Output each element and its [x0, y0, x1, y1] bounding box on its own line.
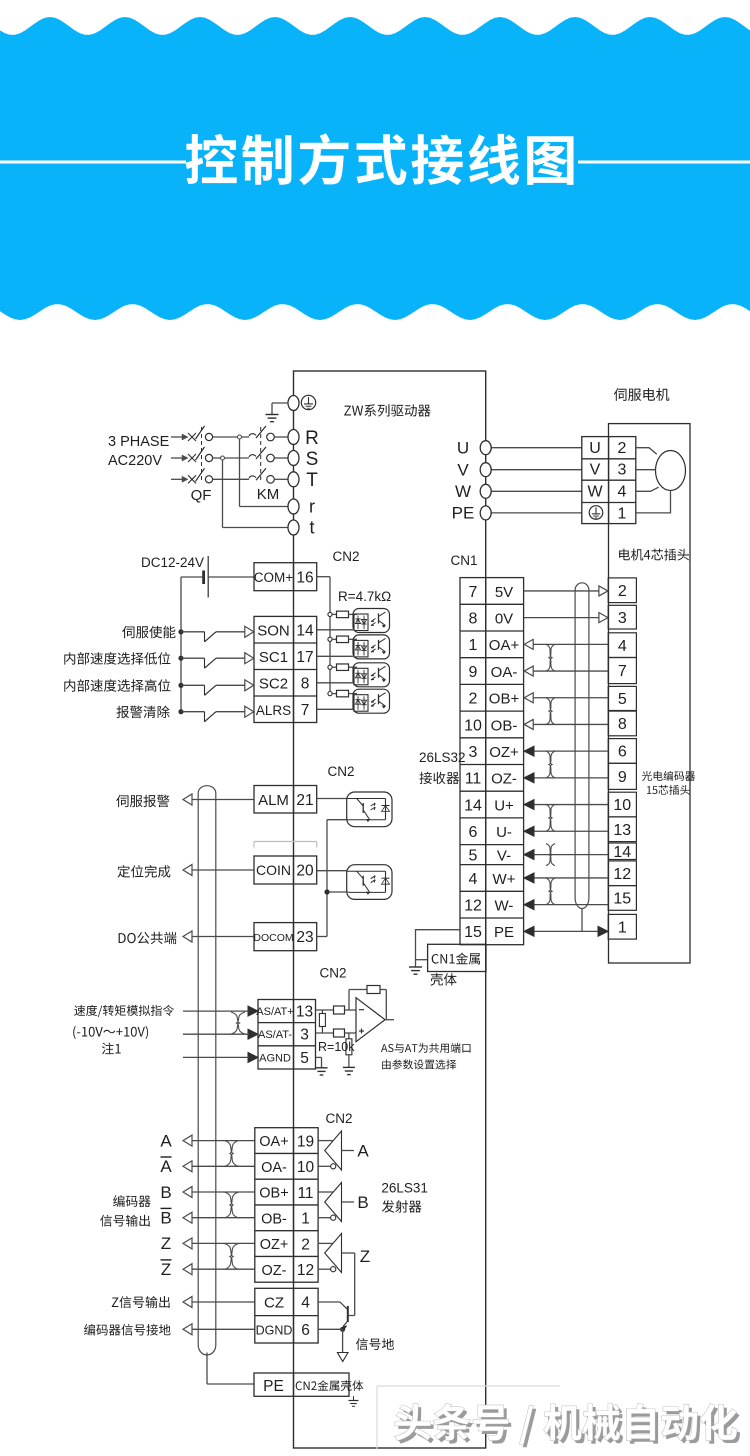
- opto node 4: [328, 692, 332, 696]
- wire W to motor table: [491, 490, 582, 492]
- svg-text:SC1: SC1: [259, 649, 288, 666]
- wire phase S source lead: [171, 457, 183, 459]
- label 伺服使能: [122, 626, 175, 639]
- encoder connector pin 2: [608, 578, 636, 603]
- svg-text:7: 7: [618, 663, 627, 680]
- svg-text:CN1: CN1: [450, 553, 477, 568]
- label (-10V～+10V): [73, 1026, 148, 1039]
- svg-text:3 PHASE: 3 PHASE: [108, 434, 170, 450]
- label CN1金属: [432, 953, 480, 965]
- svg-text:OZ-: OZ-: [262, 1263, 287, 1279]
- svg-text:7: 7: [301, 702, 310, 719]
- twist OA pair: [546, 644, 555, 671]
- junction dot SON: [178, 629, 183, 634]
- label 内部速度选择低位: [64, 652, 170, 665]
- DOCOM box: [254, 923, 317, 951]
- motor table box: [582, 437, 636, 524]
- encoder connector pin 1: [608, 914, 636, 939]
- label 伺服报警: [116, 795, 169, 808]
- arrow encoder out: [183, 1297, 192, 1308]
- label 15芯插头: [647, 785, 690, 795]
- wire DGND: [318, 1328, 343, 1330]
- svg-text:OB-: OB-: [491, 717, 518, 734]
- label 编码器: [113, 1195, 151, 1207]
- svg-text:OA+: OA+: [259, 1134, 288, 1150]
- watermark 头条号 / 机械自动化: [395, 1404, 737, 1444]
- opto node 3: [328, 665, 332, 669]
- breaker QF pole T: [196, 468, 205, 481]
- resistor R4.7k #2: [332, 638, 336, 640]
- svg-text:Z: Z: [161, 1260, 171, 1279]
- svg-text:W: W: [455, 482, 471, 501]
- svg-text:5V: 5V: [495, 584, 513, 601]
- svg-text:ALRS: ALRS: [256, 703, 291, 718]
- label 定位完成: [118, 865, 171, 878]
- terminal U: [480, 441, 491, 455]
- svg-text:OA-: OA-: [261, 1160, 287, 1176]
- wire battery+ to COM+: [208, 576, 254, 578]
- title 控制方式接线图: [186, 133, 574, 185]
- ALM box: [254, 786, 317, 814]
- wire motor pin4: [636, 487, 659, 491]
- svg-text:W: W: [587, 484, 603, 501]
- switch SON: [181, 631, 205, 633]
- svg-text:8: 8: [618, 716, 627, 733]
- wire opto1 return: [327, 819, 349, 821]
- wire opto2 return: [327, 891, 349, 893]
- label 壳体: [430, 973, 456, 986]
- wire r: [240, 506, 289, 508]
- svg-text:OA-: OA-: [491, 664, 518, 681]
- encoder connector pin 14: [608, 843, 636, 860]
- svg-text:11: 11: [297, 1185, 313, 1202]
- svg-text:COM+: COM+: [254, 570, 293, 585]
- resistor input +: [334, 1029, 345, 1037]
- svg-text:19: 19: [297, 1133, 314, 1150]
- arrow out 伺服报警: [183, 794, 192, 805]
- label 伺服电机: [614, 388, 669, 401]
- svg-text:3: 3: [300, 1027, 309, 1044]
- encoder out table box2: [255, 1288, 318, 1343]
- wire encoder to U+: [524, 804, 608, 806]
- encoder out table box1: [255, 1128, 318, 1283]
- CN1 metal shell box: [428, 944, 486, 971]
- wire encoder to OA-: [525, 670, 608, 672]
- 26LS31 driver A: [325, 1131, 342, 1170]
- svg-text:OZ+: OZ+: [260, 1237, 289, 1253]
- svg-text:20: 20: [296, 862, 314, 879]
- svg-text:6: 6: [469, 824, 478, 841]
- wire to - input: [345, 1009, 357, 1011]
- terminal PE: [480, 506, 491, 520]
- wire SC1 pin to opto: [317, 655, 353, 657]
- cable shield right: [575, 583, 589, 898]
- terminal W: [480, 484, 491, 498]
- op-amp U1: [356, 998, 385, 1042]
- wire motor pin2: [636, 448, 657, 455]
- twist OZ out pair: [225, 1244, 239, 1270]
- svg-text:QF: QF: [191, 487, 212, 504]
- optocoupler input SON: [353, 609, 390, 633]
- wire encoder to OB-: [525, 723, 608, 725]
- svg-text:2: 2: [618, 440, 627, 457]
- optocoupler output ALM: [347, 792, 392, 827]
- svg-text:V: V: [457, 461, 469, 480]
- svg-text:S: S: [306, 449, 319, 470]
- svg-text:23: 23: [296, 929, 313, 946]
- svg-text:12: 12: [297, 1262, 314, 1279]
- svg-text:CZ: CZ: [264, 1294, 284, 1311]
- label 由参数设置选择: [382, 1059, 456, 1069]
- svg-text:3: 3: [618, 461, 627, 478]
- arrow encoder out: [183, 1324, 192, 1335]
- encoder connector pin 15: [608, 886, 636, 911]
- label Z信号输出: [112, 1296, 170, 1308]
- arrow into ALRS: [245, 706, 254, 717]
- svg-text:8: 8: [469, 610, 478, 627]
- label 信号地: [356, 1338, 394, 1350]
- svg-text:V-: V-: [497, 847, 511, 864]
- wire encoder out: [192, 1140, 255, 1142]
- svg-text:3: 3: [618, 610, 627, 627]
- resistor R4.7k #3: [332, 666, 336, 668]
- wire encoder to OA+: [525, 643, 608, 645]
- wire out 伺服报警: [192, 799, 254, 801]
- arrow out DO公共端: [183, 931, 192, 942]
- wire encoder to OZ-: [524, 777, 608, 779]
- wire DOCOM to bus: [317, 936, 327, 938]
- svg-text:OZ-: OZ-: [491, 771, 517, 788]
- arrow encoder out: [183, 1264, 192, 1275]
- svg-text:AS/AT-: AS/AT-: [258, 1029, 292, 1041]
- watermark 头条号 / 机械自动化 shadow: [398, 1407, 740, 1447]
- svg-text:1: 1: [618, 506, 627, 523]
- ground power earth: [266, 414, 279, 416]
- svg-text:26LS32: 26LS32: [419, 750, 466, 765]
- battery DC supply: [207, 556, 209, 598]
- arrow encoder out: [183, 1212, 192, 1223]
- label 速度/转矩模拟指令: [74, 1005, 174, 1017]
- wire CN1 PE to shell: [416, 930, 461, 967]
- svg-text:KM: KM: [257, 486, 280, 503]
- arrow analog in: [248, 1006, 258, 1016]
- svg-text:CN2: CN2: [332, 549, 359, 564]
- wire encoder out: [192, 1217, 255, 1219]
- wire AS/AT+ in: [183, 1010, 249, 1012]
- svg-text:4: 4: [301, 1295, 310, 1312]
- terminal S: [288, 451, 299, 466]
- ground AGND: [316, 1067, 328, 1069]
- switch SC2: [181, 684, 205, 686]
- svg-text:9: 9: [469, 664, 478, 681]
- COM+ box: [254, 563, 317, 591]
- svg-text:14: 14: [464, 797, 482, 814]
- wire PE to motor table: [491, 512, 582, 514]
- COIN box: [254, 856, 317, 884]
- QF linkage dashed: [201, 427, 203, 482]
- contactor KM pole S: [249, 455, 256, 457]
- PE shell box: [254, 1373, 349, 1396]
- svg-text:SC2: SC2: [259, 675, 288, 692]
- svg-text:V: V: [590, 461, 601, 478]
- twist OB pair: [546, 698, 555, 725]
- 26LS31 driver B: [325, 1183, 342, 1222]
- wire encoder to U-: [524, 830, 608, 832]
- svg-text:10: 10: [613, 797, 631, 814]
- junction dot SC1: [178, 656, 183, 661]
- svg-text:10: 10: [297, 1159, 315, 1176]
- op-amp output: [385, 1019, 394, 1021]
- terminal r: [288, 499, 299, 514]
- ground analog +: [343, 1066, 355, 1068]
- encoder connector pin 4: [608, 633, 636, 658]
- twist OA out pair: [225, 1141, 239, 1167]
- svg-text:3: 3: [469, 744, 478, 761]
- svg-text:T: T: [306, 470, 318, 491]
- arrow out 定位完成: [183, 865, 192, 876]
- label DO公共端: [119, 932, 177, 944]
- wire encoder out: [192, 1242, 255, 1244]
- wire 5V to encoder pin: [524, 590, 607, 592]
- wire out DO公共端: [192, 936, 254, 938]
- svg-text:CN2: CN2: [327, 764, 354, 779]
- wire PE shield link: [524, 930, 607, 932]
- terminal T: [288, 472, 299, 487]
- wire encoder out: [192, 1268, 255, 1270]
- opto bus from COM+: [317, 576, 330, 578]
- encoder connector pin 13: [608, 817, 636, 842]
- svg-text:1: 1: [301, 1211, 310, 1228]
- wire Z to transistor: [354, 1253, 356, 1316]
- fuse mark phase S: [188, 454, 196, 462]
- input table box: [254, 616, 317, 722]
- svg-text:CN2: CN2: [319, 966, 346, 981]
- twist analog pair: [231, 1012, 245, 1034]
- junction dot SC2: [178, 683, 183, 688]
- wire encoder to W+: [524, 877, 608, 879]
- switch ALRS: [181, 711, 205, 713]
- svg-text:OB-: OB-: [261, 1211, 287, 1227]
- wire SON pin to opto: [317, 629, 353, 631]
- svg-text:DGND: DGND: [256, 1324, 293, 1338]
- node S-t tap: [222, 458, 224, 528]
- svg-text:AGND: AGND: [259, 1052, 291, 1064]
- contactor KM pole R: [249, 434, 256, 436]
- label 信号输出: [100, 1215, 150, 1227]
- wire out 定位完成: [192, 869, 254, 871]
- resistor R4.7k #4: [332, 693, 336, 695]
- svg-text:B: B: [160, 1183, 171, 1202]
- arrow encoder out: [183, 1161, 192, 1172]
- wire encoder out: [192, 1191, 255, 1193]
- wire PE to ground: [272, 402, 289, 404]
- svg-text:2: 2: [618, 583, 627, 600]
- svg-text:OB+: OB+: [259, 1186, 288, 1202]
- feedback loop: [348, 990, 350, 1011]
- wire U to motor table: [491, 447, 582, 449]
- optocoupler input ALRS: [353, 689, 390, 713]
- wire SC2 pin to opto: [317, 682, 353, 684]
- svg-text:DOCOM: DOCOM: [253, 932, 293, 944]
- svg-text:15: 15: [464, 924, 482, 941]
- junction dot ALRS: [178, 709, 183, 714]
- title right rule: [578, 161, 750, 164]
- resistor input -: [334, 1006, 345, 1014]
- svg-text:W-: W-: [495, 897, 514, 914]
- driver box ZW series outline: [294, 371, 486, 1448]
- wire ALRS pin to opto: [317, 708, 353, 710]
- svg-text:U-: U-: [496, 824, 512, 841]
- fuse mark phase T: [188, 475, 196, 483]
- svg-text:B: B: [160, 1209, 171, 1228]
- junction dot DGND: [340, 1327, 345, 1332]
- wire motor pin3: [636, 469, 656, 471]
- opto node 2: [328, 637, 332, 641]
- svg-text:R: R: [305, 428, 319, 449]
- svg-text:2: 2: [301, 1236, 310, 1253]
- svg-text:R=10k: R=10k: [318, 1040, 355, 1054]
- svg-text:COIN: COIN: [256, 862, 291, 878]
- transistor CZ: [318, 1301, 340, 1303]
- svg-text:SON: SON: [257, 622, 290, 639]
- arrow into SC2: [245, 680, 254, 691]
- wire ALM to opto: [317, 798, 347, 800]
- arrow analog in: [248, 1052, 258, 1062]
- twist V pair: [546, 844, 555, 866]
- encoder connector pin 10: [608, 792, 636, 817]
- svg-text:OA+: OA+: [489, 637, 520, 654]
- svg-text:U: U: [457, 439, 469, 458]
- encoder connector pin 5: [608, 686, 636, 710]
- twist OZ pair: [546, 751, 555, 778]
- svg-text:Z: Z: [360, 1247, 370, 1266]
- svg-text:1: 1: [618, 919, 627, 936]
- KM linkage dashed: [260, 427, 262, 482]
- motor connector outer box 电机4芯插头: [609, 424, 691, 963]
- svg-text:DC12-24V: DC12-24V: [141, 555, 204, 570]
- terminal PE top: [288, 396, 299, 411]
- twist U pair: [546, 805, 555, 832]
- wire motor pin1 PE: [636, 490, 671, 513]
- cable shield left: [198, 786, 216, 1345]
- terminal R: [288, 430, 299, 445]
- encoder connector pin 6: [608, 739, 636, 764]
- svg-text:5: 5: [618, 691, 627, 708]
- switch SC1: [181, 657, 205, 659]
- label 电机4芯插头: [619, 549, 689, 561]
- resistor bridge vertical: [321, 1010, 323, 1014]
- svg-text:t: t: [309, 518, 314, 538]
- label 内部速度选择高位: [64, 679, 170, 692]
- svg-text:U: U: [589, 440, 601, 457]
- svg-text:13: 13: [613, 822, 631, 839]
- wire phase R source lead: [171, 436, 183, 438]
- servo motor ellipse: [656, 451, 686, 491]
- svg-text:PE: PE: [263, 1378, 284, 1395]
- label CN2金属壳体: [296, 1380, 364, 1391]
- twist OB out pair: [225, 1192, 239, 1218]
- svg-text:7: 7: [469, 584, 478, 601]
- svg-text:A: A: [160, 1157, 172, 1176]
- optocoupler input SC2: [353, 663, 390, 687]
- signal ground triangle: [337, 1353, 348, 1362]
- terminal t: [288, 520, 299, 535]
- wire encoder to V-: [524, 854, 608, 856]
- encoder connector pin 7: [608, 658, 636, 684]
- earth circle symbol: [301, 395, 315, 409]
- wire encoder to OZ+: [524, 750, 608, 752]
- terminal V: [480, 463, 491, 477]
- svg-text:r: r: [309, 497, 315, 517]
- svg-text:CN2: CN2: [325, 1111, 352, 1126]
- CN1 table box: [460, 578, 524, 945]
- svg-text:AC220V: AC220V: [108, 453, 162, 469]
- svg-text:9: 9: [618, 769, 627, 786]
- wire encoder out: [192, 1301, 255, 1303]
- earth under PE box: [353, 1396, 355, 1400]
- wire encoder to W-: [524, 904, 608, 906]
- wire battery- to input bus: [181, 576, 204, 578]
- svg-text:13: 13: [296, 1004, 313, 1021]
- svg-text:5: 5: [469, 847, 478, 864]
- svg-text:17: 17: [296, 649, 313, 666]
- breaker QF pole S: [196, 447, 205, 460]
- contactor KM pole T: [249, 476, 256, 478]
- label 接收器: [419, 772, 459, 784]
- wire AGND in: [183, 1056, 249, 1058]
- label 光电编码器: [642, 771, 695, 781]
- wire pin13 to opamp -: [316, 1009, 334, 1011]
- svg-text:6: 6: [301, 1322, 310, 1339]
- svg-text:15: 15: [613, 891, 631, 908]
- svg-text:PE: PE: [452, 504, 475, 523]
- node R-r tap: [239, 437, 241, 507]
- wire 0V to encoder pin: [524, 617, 607, 619]
- svg-text:14: 14: [613, 844, 631, 861]
- svg-text:2: 2: [469, 691, 478, 708]
- svg-text:A: A: [357, 1142, 369, 1161]
- motor table earth cell: [589, 506, 603, 520]
- svg-text:14: 14: [296, 623, 314, 640]
- svg-text:21: 21: [296, 792, 313, 809]
- svg-text:A: A: [160, 1131, 172, 1150]
- svg-text:4: 4: [469, 871, 478, 888]
- label 发射器: [382, 1200, 422, 1213]
- banner wavy cyan band: [0, 17, 750, 320]
- wire AS/AT- in: [183, 1033, 249, 1035]
- svg-text:5: 5: [300, 1050, 309, 1067]
- arrow encoder out: [183, 1135, 192, 1146]
- watermark frame: [376, 1386, 378, 1450]
- svg-text:6: 6: [618, 744, 627, 761]
- encoder connector pin 12: [608, 861, 636, 886]
- analog table box: [258, 1000, 316, 1070]
- arrow into SC1: [245, 653, 254, 664]
- arrow into SON: [245, 626, 254, 637]
- label 编码器信号接地: [84, 1324, 171, 1336]
- svg-text:26LS31: 26LS31: [381, 1181, 428, 1196]
- wire encoder out: [192, 1165, 255, 1167]
- svg-text:AS/AT+: AS/AT+: [256, 1006, 293, 1018]
- svg-text:11: 11: [465, 771, 482, 788]
- opto node 1: [328, 612, 332, 616]
- svg-text:1: 1: [469, 637, 478, 654]
- breaker QF pole R: [196, 426, 205, 439]
- svg-text:R=4.7kΩ: R=4.7kΩ: [338, 589, 391, 604]
- svg-text:4: 4: [618, 484, 627, 501]
- wire AGND to ground: [316, 1056, 322, 1058]
- arrow encoder out: [183, 1238, 192, 1249]
